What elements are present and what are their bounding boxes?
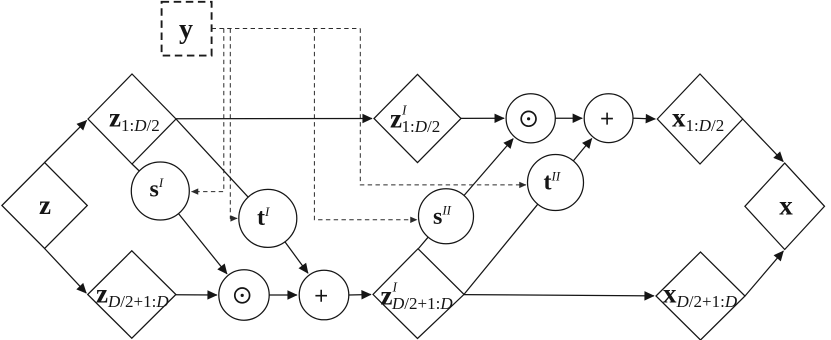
- node x (diamond): [745, 163, 825, 249]
- wire sII to odot2: [464, 139, 513, 196]
- op odot1 (circle with dot product): [219, 270, 269, 320]
- dashed wire drop to tII: [360, 29, 526, 185]
- wire plus1 to zID/2+1:D: [349, 294, 371, 297]
- wire zI1:D/2 to odot2: [461, 117, 504, 119]
- svg-text:xD/2+1:D: xD/2+1:D: [663, 279, 738, 312]
- node zD/2+1:D (diamond): [88, 251, 176, 338]
- svg-text:sI: sI: [150, 175, 164, 203]
- wire z1:D/2 to sI: [132, 164, 139, 171]
- dashed wire drop to tI: [230, 29, 237, 219]
- svg-text:zI1:D/2: zI1:D/2: [390, 103, 440, 137]
- op plus2 (circle with plus): [584, 94, 633, 143]
- node y (dashed conditioning box): [162, 2, 212, 56]
- wire z to z1:D/2: [45, 120, 87, 162]
- svg-text:sII: sII: [433, 203, 452, 231]
- dashed wire drop to sI: [192, 29, 224, 192]
- dashed wire drop to sII: [314, 29, 417, 220]
- wire zID/2+1:D to tII: [464, 204, 538, 294]
- svg-text:z: z: [39, 190, 51, 220]
- svg-text:x: x: [779, 191, 793, 221]
- node zID/2+1:D (diamond): [373, 249, 464, 339]
- svg-text:x1:D/2: x1:D/2: [672, 103, 724, 136]
- svg-text:y: y: [179, 14, 193, 45]
- wire tI to plus1: [285, 242, 308, 273]
- op plus1 (circle with plus): [299, 270, 349, 320]
- wire zID/2+1:D to sII: [419, 237, 429, 248]
- wire zD/2+1:D to odot1: [176, 294, 217, 296]
- svg-text:tII: tII: [544, 169, 561, 196]
- wire zID/2+1:D to xD/2+1:D: [464, 295, 654, 296]
- wire plus2 to x1:D/2: [633, 117, 655, 120]
- node sII (circle): [419, 189, 474, 244]
- node xD/2+1:D (diamond): [656, 252, 745, 340]
- wire z1:D/2 to tI: [176, 119, 248, 197]
- wire odot2 to plus2: [555, 117, 582, 119]
- node zI1:D/2 (diamond): [374, 74, 461, 162]
- node tII (circle): [528, 155, 584, 211]
- dashed wire y to junctions (top horizontal): [212, 28, 361, 30]
- wire sI to odot1: [179, 214, 228, 274]
- op odot2 (circle with dot product): [506, 94, 555, 143]
- svg-text:zID/2+1:D: zID/2+1:D: [381, 280, 454, 314]
- wire z to zD/2+1:D: [45, 249, 87, 294]
- wire z1:D/2 to zI1:D/2: [176, 118, 372, 120]
- node tI (circle): [239, 189, 297, 247]
- svg-text:zD/2+1:D: zD/2+1:D: [96, 279, 169, 312]
- svg-text:tI: tI: [257, 204, 270, 231]
- wire x1:D/2 to x: [743, 119, 784, 162]
- node z (diamond): [2, 163, 87, 249]
- wire xD/2+1:D to x: [745, 251, 783, 296]
- node sI (circle): [131, 162, 189, 220]
- node x1:D/2 (diamond): [657, 74, 742, 164]
- node z1:D/2 (diamond): [88, 74, 176, 164]
- svg-text:z1:D/2: z1:D/2: [109, 103, 160, 136]
- wire odot1 to plus1: [269, 294, 297, 296]
- wire tII to plus2: [573, 139, 592, 161]
